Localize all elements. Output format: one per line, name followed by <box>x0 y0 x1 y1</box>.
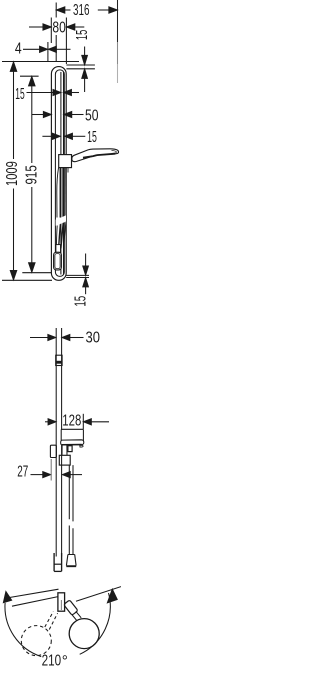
svg-text:50: 50 <box>85 107 99 124</box>
svg-text:°: ° <box>62 653 68 670</box>
svg-text:15: 15 <box>87 129 97 146</box>
svg-text:30: 30 <box>86 329 101 346</box>
svg-text:15: 15 <box>73 296 90 307</box>
svg-text:27: 27 <box>17 464 28 481</box>
svg-text:15: 15 <box>15 86 24 103</box>
svg-text:128: 128 <box>62 412 81 429</box>
svg-text:316: 316 <box>73 2 90 19</box>
svg-text:4: 4 <box>15 40 22 57</box>
svg-text:210: 210 <box>42 653 62 670</box>
svg-text:1009: 1009 <box>4 161 21 186</box>
svg-text:80: 80 <box>52 20 65 37</box>
svg-text:15: 15 <box>74 30 91 40</box>
svg-text:915: 915 <box>23 165 40 184</box>
